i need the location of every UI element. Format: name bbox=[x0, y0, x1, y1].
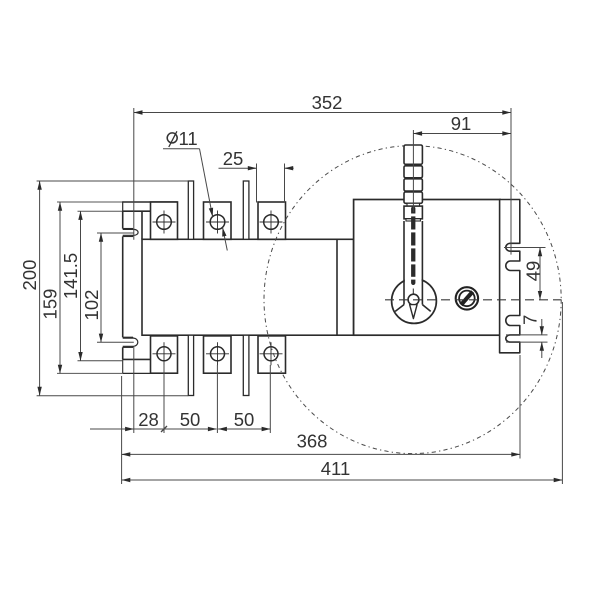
dim 91 extension line bbox=[412, 130, 414, 212]
dim 141.5 bbox=[78, 360, 123, 362]
svg-text:11: 11 bbox=[179, 128, 198, 149]
dim 411 line bbox=[122, 479, 563, 481]
top foot notch bbox=[123, 228, 133, 230]
pivot small circle bbox=[408, 294, 419, 305]
dim 25 line (outside arrows) bbox=[219, 167, 257, 169]
dim 352 extension lines bbox=[133, 108, 135, 240]
dim 368 extension lines bbox=[121, 376, 123, 484]
right mounting plate with keyhole slots bbox=[500, 200, 520, 353]
terminal holes ø11 with centermarks bbox=[153, 211, 283, 366]
dim 352 line bbox=[134, 112, 511, 114]
svg-text:159: 159 bbox=[40, 289, 61, 320]
dim 28/50/50 extension lines bbox=[133, 347, 135, 433]
main body molding bbox=[142, 211, 354, 335]
svg-text:50: 50 bbox=[234, 409, 255, 430]
handle swing phantom circle bbox=[264, 146, 561, 454]
svg-text:28: 28 bbox=[138, 409, 159, 430]
dim 49 bbox=[504, 247, 546, 249]
pointer bbox=[410, 305, 418, 319]
svg-text:352: 352 bbox=[312, 92, 343, 113]
dim 102 bbox=[97, 232, 134, 234]
svg-text:49: 49 bbox=[523, 261, 544, 282]
handle hub bbox=[392, 279, 437, 324]
svg-text:200: 200 bbox=[19, 260, 40, 291]
handle slot bbox=[411, 207, 415, 286]
dim 200 bbox=[37, 180, 189, 182]
dim 91 line bbox=[413, 133, 511, 135]
svg-text:7: 7 bbox=[519, 315, 540, 325]
bottom foot notch bbox=[123, 336, 133, 338]
svg-text:141.5: 141.5 bbox=[60, 253, 81, 299]
dimension texts bbox=[179, 92, 472, 169]
svg-text:25: 25 bbox=[223, 148, 244, 169]
svg-text:102: 102 bbox=[81, 290, 102, 321]
handle lever bbox=[395, 145, 431, 319]
svg-text:411: 411 bbox=[321, 458, 351, 479]
leader ø11 bbox=[163, 148, 200, 150]
dim 159 bbox=[59, 202, 61, 373]
dim 25 extension lines bbox=[256, 164, 258, 203]
svg-text:91: 91 bbox=[451, 113, 472, 134]
adjustment screw bbox=[456, 287, 478, 309]
hub wing notches bbox=[395, 305, 404, 312]
horizontal centerline bbox=[385, 299, 562, 301]
mechanism box bbox=[354, 200, 500, 336]
dim 411 extension line bbox=[561, 302, 563, 484]
tick at 164 bbox=[161, 426, 167, 432]
svg-text:50: 50 bbox=[180, 409, 201, 430]
top terminal pads bbox=[151, 202, 286, 239]
dim 368 line bbox=[122, 453, 520, 455]
left mounting bracket bbox=[57, 201, 178, 373]
dim 28/50/50 line bbox=[90, 428, 134, 430]
svg-text:368: 368 bbox=[297, 431, 328, 452]
phase barrier plates bbox=[188, 181, 249, 396]
dim 7 bbox=[506, 334, 548, 336]
bottom terminal pads bbox=[151, 336, 286, 373]
